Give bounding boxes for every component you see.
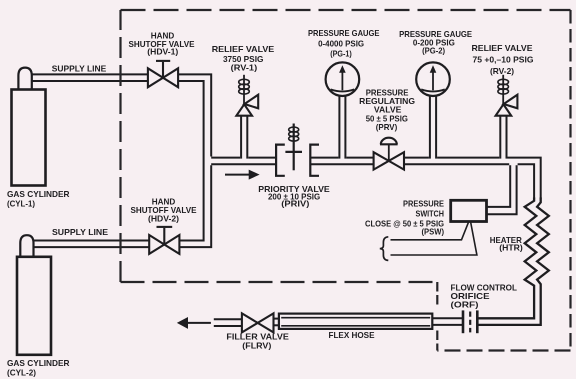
wire main line top (priority valve to PRV, break at PG-1 tee) <box>310 157 338 159</box>
svg-text:PRESSURE GAUGE: PRESSURE GAUGE <box>308 28 380 38</box>
wire RV-1 riser <box>240 116 242 159</box>
svg-text:(PRIV): (PRIV) <box>281 198 309 208</box>
wire orifice to flex hose <box>432 317 462 319</box>
svg-text:(RV-2): (RV-2) <box>490 66 514 76</box>
svg-text:GAS CYLINDER: GAS CYLINDER <box>7 189 70 199</box>
gas cylinder CYL-2 <box>17 235 51 355</box>
wire main line bottom (PRV to heater turn, break at PSW branch) <box>404 163 509 165</box>
dashed enclosure border <box>121 10 571 351</box>
heater HTR double zigzag outer <box>478 198 548 325</box>
wire PG-2 riser <box>429 95 431 159</box>
svg-text:SUPPLY LINE: SUPPLY LINE <box>52 64 107 74</box>
svg-text:(HDV-1): (HDV-1) <box>147 47 178 57</box>
filler valve FLRV <box>242 313 274 332</box>
wire vertical run right line lower part to HDV-2 <box>180 165 211 247</box>
wire supply line 1 bottom (inner) turning down to supply line 2 top <box>32 80 148 82</box>
wire RV-2 riser <box>499 116 501 159</box>
wire pressure switch branch (down from main line, left to box) <box>486 165 510 207</box>
wire main line top (junction to priority valve, breaks at RV-1 tee) <box>211 157 240 159</box>
pressure gauge PG-2 <box>416 62 450 96</box>
pressure switch wires <box>391 222 477 255</box>
svg-text:(PG-2): (PG-2) <box>422 46 445 56</box>
pressure switch PSW box <box>451 200 487 221</box>
svg-text:PRESSURE: PRESSURE <box>403 199 444 209</box>
svg-text:FLEX HOSE: FLEX HOSE <box>329 330 375 340</box>
svg-text:(CYL-1): (CYL-1) <box>7 199 35 209</box>
wire PG-1 riser <box>338 95 340 159</box>
pressure regulating valve PRV <box>374 138 404 170</box>
priority valve PRIV <box>276 124 319 176</box>
brace for external circuit <box>380 237 389 261</box>
relief valve RV-2 <box>496 75 518 116</box>
svg-text:RELIEF VALVE: RELIEF VALVE <box>212 44 275 54</box>
svg-text:SUPPLY LINE: SUPPLY LINE <box>52 227 108 237</box>
flow arrow into priority valve <box>225 170 258 178</box>
flow control orifice ORF <box>463 310 477 333</box>
svg-text:75 +0,–10 PSIG: 75 +0,–10 PSIG <box>473 54 534 64</box>
wire filler valve to flex hose <box>273 318 279 320</box>
wire main line bottom (priority valve to PRV) <box>310 163 373 165</box>
svg-text:(ORF): (ORF) <box>451 300 479 310</box>
svg-text:(PG-1): (PG-1) <box>330 48 352 58</box>
gas cylinder CYL-1 <box>12 68 46 186</box>
svg-text:(RV-1): (RV-1) <box>231 62 258 72</box>
outlet arrow <box>178 318 211 328</box>
svg-text:SWITCH: SWITCH <box>416 209 445 219</box>
svg-text:(PRV): (PRV) <box>376 122 398 132</box>
wire left of filler valve <box>214 318 242 320</box>
svg-text:(HTR): (HTR) <box>499 243 523 253</box>
relief valve RV-1 <box>236 75 258 116</box>
svg-text:(CYL-2): (CYL-2) <box>7 368 36 378</box>
wire main line bottom (junction to priority valve) <box>211 163 276 165</box>
hand shutoff valve HDV-2 <box>149 227 179 254</box>
svg-text:(FLRV): (FLRV) <box>242 341 271 351</box>
heater HTR double zigzag inner <box>478 198 536 319</box>
svg-text:RELIEF VALVE: RELIEF VALVE <box>472 43 533 53</box>
svg-text:(HDV-2): (HDV-2) <box>148 213 179 223</box>
svg-text:(PSW): (PSW) <box>422 227 445 237</box>
wire main line top (PRV to right turn, breaks at PG-2 and RV-2 tees) <box>404 157 429 159</box>
pressure gauge PG-1 <box>326 62 360 96</box>
hand shutoff valve HDV-1 <box>148 61 178 87</box>
flex hose <box>279 314 432 329</box>
svg-text:0-4000 PSIG: 0-4000 PSIG <box>318 39 364 49</box>
wire supply line 2 from HDV-2 to CYL-2 <box>34 246 149 248</box>
wire supply line 1 top (CYL-1 to HDV-1, outer corner down) <box>32 73 148 75</box>
